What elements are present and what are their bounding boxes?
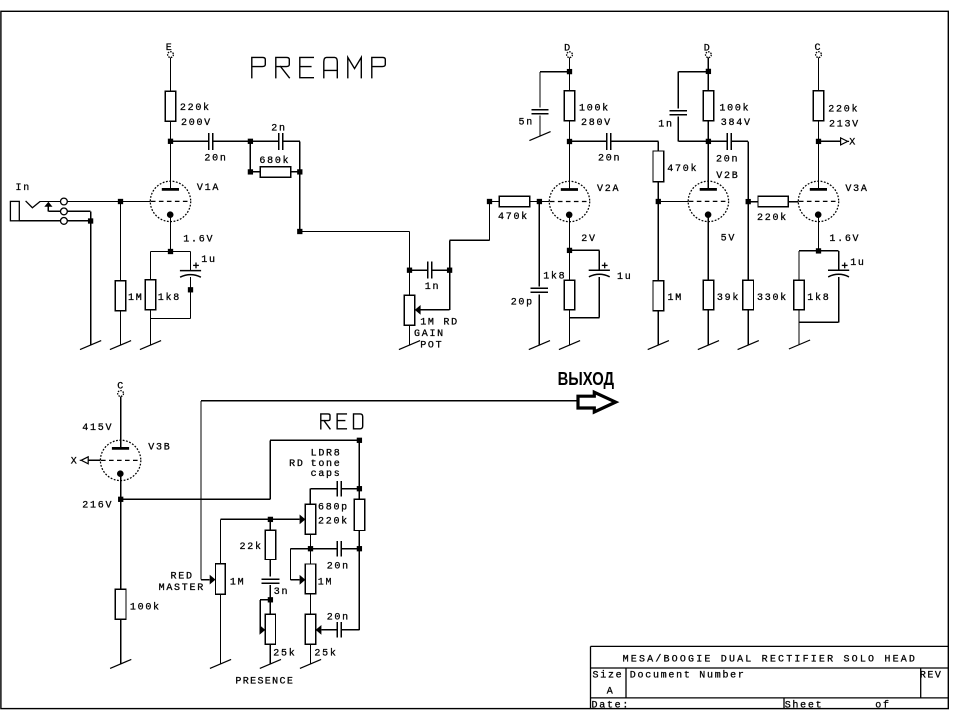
wire cathode node right V3A (819, 250, 839, 252)
wire grid node drop (538, 202, 540, 287)
capacitor C14 20n (337, 622, 341, 638)
wire pot3 wiper lead (291, 579, 300, 581)
wire 2n right drop (299, 141, 301, 172)
wire 1k8/1u tie V3A (799, 321, 839, 323)
terminal D V2B (706, 52, 712, 58)
wire V3B cathode (120, 474, 122, 500)
capacitor C11 1u (electrolytic) (828, 270, 849, 277)
wire to R 1k8 V3A (798, 251, 800, 280)
wire plate node to C 20n V2B (711, 140, 727, 142)
resistor R7 470k (499, 196, 529, 206)
svg-text:3n: 3n (274, 587, 289, 598)
wire gain wiper lead (421, 309, 450, 311)
wire to C 1u V3A (838, 251, 840, 270)
terminal C V3B (118, 391, 124, 397)
ground gain pot (399, 341, 420, 350)
wire jack switch to pin2 (48, 210, 60, 212)
wire grid node drop (120, 202, 122, 281)
title text RED (321, 414, 363, 429)
junction node C1/C2 (248, 139, 253, 144)
wire pin2 to gnd corner (67, 210, 90, 212)
wire node to 5n col (540, 71, 570, 73)
pot wiper P4 (316, 625, 322, 635)
capacitor C8 1u (electrolytic) (589, 270, 610, 277)
wire node to R 100k V2B (707, 71, 709, 91)
wire C15 bottom (269, 585, 271, 600)
wire 220k left stub (751, 201, 758, 203)
resistor R2 680k (260, 167, 291, 177)
resistor R16 100k (115, 589, 126, 619)
junction V3B cathode node (118, 497, 123, 502)
capacitor C6 20n (607, 133, 611, 150)
title block outline (591, 646, 949, 708)
wire corner drop to grid node (747, 141, 749, 201)
jack pin 1 (61, 198, 68, 205)
junction gain pot top node (407, 268, 412, 273)
svg-text:A: A (607, 687, 615, 698)
svg-text:20n: 20n (716, 155, 739, 166)
wire C3 to wiper node (432, 269, 450, 271)
capacitor C3 1n (428, 262, 432, 279)
svg-text:V3A: V3A (845, 184, 868, 195)
svg-text:V2A: V2A (597, 184, 620, 195)
resistor R11 39k (703, 280, 714, 310)
wire wiper bus (221, 518, 300, 520)
capacitor C9 1n (670, 111, 687, 115)
ground R15 (789, 340, 810, 349)
wire pin2 corner down (90, 211, 92, 221)
svg-text:220k: 220k (757, 212, 788, 224)
resistor R8 1k8 (564, 280, 575, 310)
wire gain wiper rise (449, 270, 451, 310)
svg-text:1M RD: 1M RD (420, 318, 459, 329)
wire tone feed across (270, 439, 359, 441)
ground R8 (559, 341, 580, 350)
off-page arrow from X (80, 457, 89, 464)
wire grid node drop V2B (657, 202, 659, 281)
wire gain pot feed (409, 270, 411, 295)
resistor R9 100k (703, 91, 714, 121)
tube V3A (798, 181, 838, 221)
svg-text:1M: 1M (318, 578, 333, 589)
svg-text:MESA/BOOGIE DUAL RECTIFIER SOL: MESA/BOOGIE DUAL RECTIFIER SOLO HEAD (623, 654, 918, 666)
svg-text:330k: 330k (757, 292, 788, 304)
wire pot3 feed (310, 549, 312, 564)
svg-text:RD: RD (289, 459, 304, 470)
junction V2A grid node (537, 199, 542, 204)
ground R3 (110, 341, 131, 350)
svg-text:25k: 25k (314, 647, 337, 659)
svg-text:220k: 220k (828, 104, 859, 116)
junction V2B grid node (656, 199, 661, 204)
resistor R13 220k (758, 196, 788, 206)
wire 470k right stub (530, 201, 550, 203)
pot wiper P5 (260, 625, 266, 635)
svg-text:ВЫХОД: ВЫХОД (558, 369, 615, 389)
wire to V2A grid col (450, 239, 490, 241)
junction V1A cathode node (168, 249, 173, 254)
wire to C 1u (190, 252, 192, 271)
wire to C 1u V2A (598, 250, 600, 270)
wire pot3 wiper drop (290, 549, 292, 580)
wire left drop to R 680k (249, 141, 251, 172)
resistor R14 330k (743, 280, 754, 310)
ground P5 (260, 659, 281, 668)
wire plate node to X arrow (819, 140, 841, 142)
junction V2A grid 470k node (487, 199, 492, 204)
junction tone node 680p (357, 486, 362, 491)
wire 5n to gnd (539, 116, 541, 137)
ground R10 (648, 341, 669, 350)
wire V2A plate drop (569, 142, 571, 190)
wire P1 bottom (220, 594, 222, 664)
wire 680k right stub (291, 171, 300, 173)
tube V2A (549, 181, 589, 221)
svg-text:1.6V: 1.6V (829, 234, 860, 245)
wire 1n col to plate node (677, 117, 679, 142)
wire jack sleeve to pin3 (19, 220, 60, 222)
wire gain pot to gnd (409, 325, 411, 345)
potentiometer P1 RED MASTER 1M (216, 564, 226, 595)
wire R15 bottom (798, 310, 800, 322)
terminal E (168, 52, 174, 58)
wire 1k8/1u tie (151, 318, 191, 320)
wire output riser (200, 401, 202, 580)
wire D to node (569, 58, 571, 72)
svg-text:REV: REV (920, 670, 943, 681)
svg-text:20n: 20n (598, 154, 621, 165)
wire node to R 100k (569, 72, 571, 91)
tube V1A (150, 181, 190, 221)
pot wiper P3 (300, 575, 306, 585)
wire 680k node drop (299, 172, 301, 232)
wire P5 feed (269, 600, 271, 615)
wire pot2 bottom (310, 534, 312, 548)
polarity mark C8 (602, 263, 608, 269)
wire grid node drop V3A (747, 202, 749, 281)
wire node to 1n col (678, 71, 708, 73)
wire P5 wiper drop (259, 600, 261, 630)
capacitor C1 20n (209, 133, 213, 150)
svg-text:384V: 384V (721, 118, 752, 129)
wire P5 bottom (269, 644, 271, 664)
wire 5n col drop (539, 72, 541, 108)
wire R8 to gnd (569, 318, 571, 345)
svg-text:1k8: 1k8 (158, 292, 181, 304)
wire C2 to right corner (283, 140, 300, 142)
junction V2B plate node (706, 139, 711, 144)
svg-text:680p: 680p (318, 502, 349, 513)
junction R 680k left node (248, 169, 253, 174)
svg-text:RED: RED (171, 572, 194, 583)
capacitor C10 20n (727, 133, 731, 150)
output block arrow (578, 392, 616, 412)
svg-text:470k: 470k (667, 163, 698, 175)
wire R8 bottom (569, 310, 571, 318)
svg-text:1.6V: 1.6V (183, 234, 214, 245)
svg-text:1u: 1u (201, 255, 216, 266)
svg-text:Sheet: Sheet (785, 700, 824, 712)
wire cathode node left (151, 251, 171, 253)
wire 680k left stub (250, 171, 260, 173)
wire R11 to gnd (707, 310, 709, 345)
pot wiper P2 (300, 515, 306, 525)
svg-text:PRESENCE: PRESENCE (235, 676, 294, 687)
svg-text:220k: 220k (318, 515, 349, 527)
off-page arrow to X (841, 138, 850, 145)
potentiometer P4 25k (305, 614, 315, 644)
wire cathode node right V3B (121, 498, 270, 500)
capacitor C15 3n (262, 579, 280, 583)
wire 470k left stub (490, 201, 500, 203)
wire R4 bottom (150, 310, 152, 319)
svg-text:470k: 470k (498, 211, 529, 223)
svg-text:680k: 680k (259, 155, 290, 167)
wire V2A grid col up (489, 202, 491, 241)
svg-text:In: In (16, 183, 31, 194)
junction V3A cathode node (816, 248, 821, 253)
wire C to R 220k (818, 58, 820, 91)
junction V1A plate node (168, 139, 173, 144)
svg-text:1M: 1M (128, 293, 143, 304)
junction C4 bottom node (188, 287, 193, 292)
svg-text:20n: 20n (327, 612, 350, 623)
wire C13 right stub (341, 548, 357, 550)
svg-text:2n: 2n (271, 123, 286, 134)
wire C14 right stub (341, 629, 359, 631)
svg-text:100k: 100k (719, 102, 750, 114)
resistor R4 1k8 (145, 280, 156, 310)
svg-text:Size: Size (593, 669, 624, 681)
wire pin3 to gnd node (67, 220, 90, 222)
wire 1n bottom across (678, 140, 706, 142)
wire R15 to gnd (798, 322, 800, 345)
svg-text:280V: 280V (581, 118, 612, 129)
svg-text:V1A: V1A (197, 183, 220, 194)
svg-text:20n: 20n (327, 562, 350, 573)
svg-text:1k8: 1k8 (543, 270, 566, 282)
potentiometer P2 220k (305, 504, 315, 534)
junction gain wiper node (447, 268, 452, 273)
svg-text:Date:: Date: (592, 701, 631, 712)
junction V1A grid node (118, 199, 123, 204)
resistor R5 100k (564, 91, 575, 121)
svg-text:1M: 1M (230, 578, 245, 589)
wire V3A cathode (818, 215, 820, 251)
svg-text:200V: 200V (181, 118, 212, 129)
wire C4 bottom (190, 277, 192, 318)
capacitor C12 680p (337, 481, 341, 497)
wire V1A plate drop (170, 141, 172, 189)
jack switch arrow (44, 202, 52, 207)
resistor R10 1M (653, 281, 664, 311)
svg-text:POT: POT (420, 340, 443, 351)
wire C1 to node 2n (213, 140, 250, 142)
wire P4 bottom (310, 644, 312, 664)
junction corner node A (297, 229, 302, 234)
wire grid wire V1A (67, 201, 150, 203)
resistor R15 1k8 (794, 280, 805, 310)
svg-text:1u: 1u (617, 272, 632, 283)
junction presence node (268, 597, 273, 602)
svg-text:25k: 25k (273, 647, 296, 659)
svg-text:39k: 39k (717, 292, 740, 304)
tube V3B (100, 440, 140, 480)
junction V2A plate node (567, 139, 572, 144)
svg-text:1M: 1M (668, 293, 683, 304)
wire 1k8/1u tie V2A (570, 317, 600, 319)
capacitor C13 20n (337, 541, 341, 557)
svg-text:1u: 1u (850, 258, 865, 269)
wire C to V3B plate (120, 396, 122, 448)
wire R12 to plate node (818, 121, 820, 142)
wire jack tip to pin1 (40, 201, 60, 203)
svg-text:E: E (166, 43, 174, 54)
svg-text:5n: 5n (519, 117, 534, 128)
svg-text:2V: 2V (581, 234, 596, 245)
wire C8 bottom (598, 277, 600, 318)
svg-text:Document Number: Document Number (630, 669, 746, 681)
svg-text:216V: 216V (82, 501, 113, 512)
resistor R18 22k (265, 530, 276, 559)
ground R4 (140, 341, 161, 350)
wire cathode node left V3A (799, 250, 819, 252)
pot wiper GAIN (415, 305, 421, 315)
wire D to node V2B (707, 58, 709, 72)
capacitor C7 20p (531, 288, 548, 292)
wire P5 wiper left (260, 599, 270, 601)
junction V3A grid node (746, 199, 751, 204)
resistor R12 220k (813, 91, 824, 121)
wire V2B plate drop (707, 141, 709, 189)
wire C13 left stub (311, 548, 338, 550)
wire 680p left lead (310, 488, 337, 490)
wire V3B cathode drop (120, 499, 122, 589)
svg-text:X: X (71, 456, 79, 467)
svg-text:100k: 100k (579, 103, 610, 115)
wire jack ground drop (90, 221, 92, 345)
svg-text:caps: caps (311, 469, 342, 480)
ground C7 (529, 341, 550, 350)
svg-text:V2B: V2B (716, 171, 739, 182)
wire R4 to gnd (150, 319, 152, 346)
wire C11 bottom (838, 277, 840, 322)
svg-text:MASTER: MASTER (159, 583, 205, 594)
wire tone rail seg1 (358, 440, 360, 488)
svg-text:GAIN: GAIN (414, 329, 445, 340)
svg-text:1k8: 1k8 (807, 292, 830, 304)
resistor R3 1M (115, 281, 126, 311)
junction tone node mid (357, 546, 362, 551)
wire node to C 1n (410, 269, 428, 271)
svg-text:X: X (849, 138, 857, 149)
svg-text:220k: 220k (180, 102, 211, 114)
wire R14 to gnd (747, 310, 749, 345)
wire plate node to C 20n (171, 140, 209, 142)
wire wiper node up (449, 240, 451, 270)
potentiometer P5 25k (265, 614, 275, 644)
wire V2A cathode (569, 215, 571, 251)
wire pot3 wiper left (291, 548, 311, 550)
wire P4 wiper lead (321, 629, 337, 631)
wire R18 bottom (269, 560, 271, 577)
junction V3A plate node (816, 139, 821, 144)
jack pin 2 (61, 208, 68, 215)
wire X to V3B grid (88, 459, 100, 461)
input jack tip contact (26, 201, 41, 208)
wire to R 1k8 V2A (569, 250, 571, 280)
wire E to R 220k (170, 58, 172, 92)
pot wiper P1 (210, 575, 216, 585)
wire R16 to gnd (120, 619, 122, 664)
resistor R17 220k (354, 499, 365, 530)
wire node to C 2n (250, 140, 278, 142)
capacitor C2 2n (279, 133, 283, 150)
ground R16 (110, 659, 131, 668)
wire C10 to corner (732, 140, 748, 142)
wire R6 to V2B grid node (657, 182, 659, 202)
wire node A to gain pot col (300, 231, 410, 233)
wire to R 1k8 (150, 252, 152, 280)
svg-text:V3B: V3B (148, 443, 171, 454)
svg-text:415V: 415V (82, 423, 113, 434)
wire tone feed rise (269, 440, 271, 499)
svg-text:213V: 213V (829, 120, 860, 131)
wire pot3 bottom (310, 594, 312, 615)
wire 470k col drop (657, 141, 659, 151)
wire bus corner drop (220, 519, 222, 564)
wire V3A plate drop (818, 141, 820, 189)
resistor R1 220k (165, 91, 176, 121)
junction V2B supply node (706, 69, 711, 74)
junction jack ground node (88, 218, 93, 223)
wire R1 to plate node (170, 121, 172, 141)
svg-text:1n: 1n (658, 120, 673, 131)
polarity mark C4 (193, 263, 199, 269)
ground R11 (698, 341, 719, 350)
wire R5 to plate node (569, 121, 571, 142)
wire plate node to C 20n (570, 140, 607, 142)
wire R3 to gnd (120, 311, 122, 345)
wire tone rail seg2 (358, 549, 360, 630)
svg-text:D: D (704, 43, 712, 54)
wire cathode node right (171, 251, 191, 253)
wire 220k right stub (788, 201, 798, 203)
junction wiper bus node (268, 517, 273, 522)
polarity mark C11 (842, 263, 848, 269)
tube V2B (688, 181, 728, 221)
wire R17 bottom (358, 531, 360, 549)
resistor R6 470k (653, 151, 664, 182)
wire jack switch down (47, 207, 49, 212)
wire V2B cathode (707, 215, 709, 280)
wire grid wire V2B (661, 201, 688, 203)
ground R14 (738, 341, 759, 350)
wire output line (201, 400, 577, 402)
terminal D V2A (567, 52, 573, 58)
junction tone top node (357, 438, 362, 443)
svg-text:LDR8: LDR8 (311, 448, 342, 459)
ground P4 (300, 659, 321, 668)
input jack J1 body (10, 201, 19, 220)
wire C6 to 470k col (611, 140, 658, 142)
svg-text:100k: 100k (130, 601, 161, 613)
junction V2A cathode node (567, 248, 572, 253)
ground input (80, 341, 101, 350)
wire gain col drop (409, 232, 411, 271)
wire V1A cathode (170, 215, 172, 252)
wire tone rail to R 220k (358, 489, 360, 500)
